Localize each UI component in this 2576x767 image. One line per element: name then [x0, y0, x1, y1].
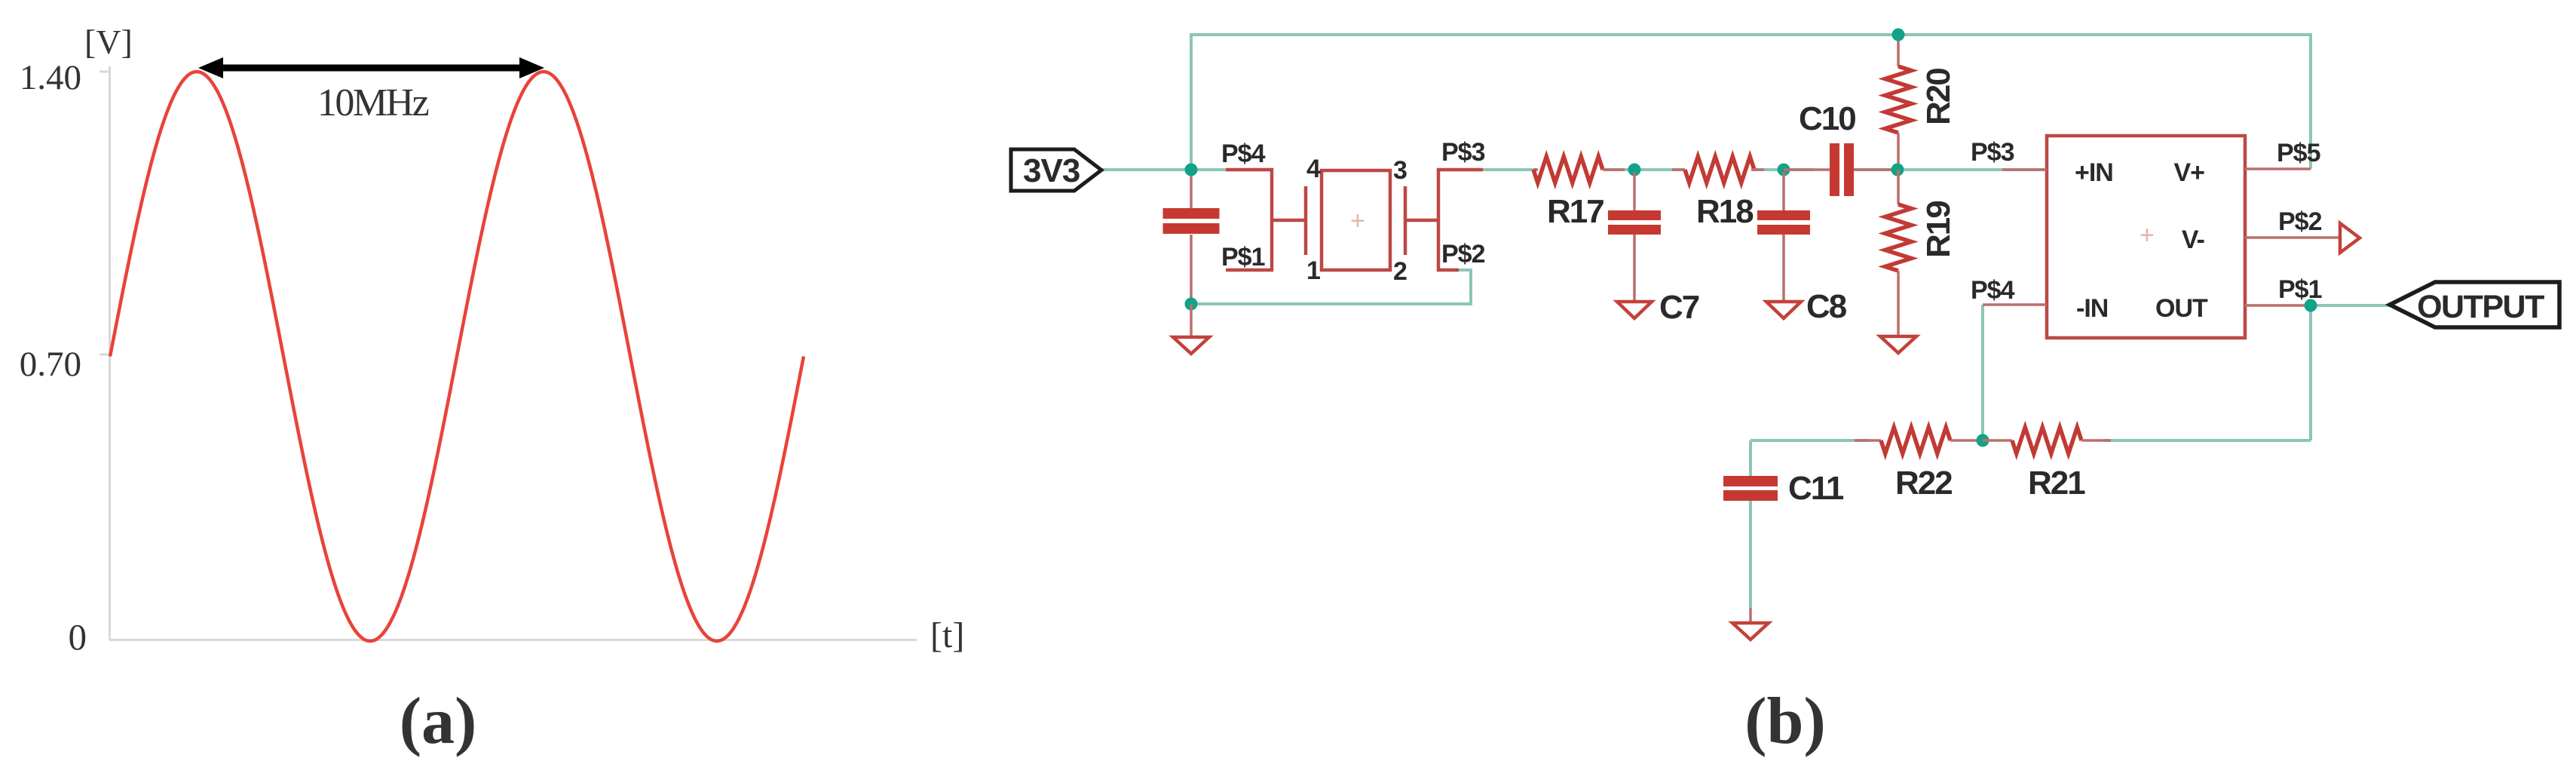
- op-amp V+ pin wire: [2245, 167, 2311, 170]
- pin label P$2 (crystal): [1441, 240, 1485, 268]
- wire: feedback bottom run: [1751, 439, 2311, 442]
- svg-text:P$2: P$2: [1441, 240, 1485, 268]
- svg-text:C10: C10: [1799, 100, 1855, 137]
- crystal pin number 2: [1393, 257, 1407, 286]
- capacitor C6 (3V3 decoupling): [1163, 171, 1220, 301]
- svg-text:V-: V-: [2182, 225, 2204, 254]
- resistor R17: [1533, 157, 1625, 183]
- svg-text:OUT: OUT: [2155, 294, 2208, 323]
- subfigure label (b): [1744, 685, 1826, 758]
- wire: 3V3 input net: [1099, 168, 1226, 171]
- svg-text:C11: C11: [1788, 470, 1844, 507]
- svg-text:C8: C8: [1806, 288, 1847, 325]
- svg-text:(b): (b): [1744, 685, 1826, 758]
- ground below C6: [1173, 304, 1209, 354]
- svg-text:P$3: P$3: [1971, 138, 2014, 167]
- crystal pin number 1: [1306, 256, 1321, 285]
- svg-text:P$4: P$4: [1971, 276, 2015, 305]
- period arrow: [198, 57, 544, 78]
- junction node rail/R20: [1892, 29, 1905, 41]
- svg-text:+IN: +IN: [2075, 158, 2113, 187]
- subfigure label (a): [400, 685, 477, 758]
- svg-text:3V3: 3V3: [1023, 152, 1080, 189]
- svg-text:R20: R20: [1920, 69, 1957, 125]
- svg-text:+: +: [2140, 221, 2155, 250]
- wire: -IN feedback vertical: [1981, 305, 1984, 440]
- op-amp pin name +IN: [2075, 158, 2113, 187]
- op-amp pin name V-: [2182, 225, 2204, 254]
- label C10: [1799, 100, 1855, 137]
- label R19 (rotated): [1920, 201, 1957, 258]
- svg-text:V+: V+: [2173, 158, 2204, 187]
- op-amp U1: [2047, 136, 2245, 338]
- ground below R19: [1880, 336, 1916, 353]
- wire: OUT node to feedback bottom: [2309, 305, 2312, 440]
- axis label [t]: [930, 615, 964, 655]
- junction node cap bottom: [1185, 298, 1198, 311]
- label R22: [1895, 465, 1952, 502]
- svg-text:P$1: P$1: [1221, 243, 1265, 272]
- svg-text:+: +: [1350, 207, 1365, 235]
- pin label P$1 (op-amp): [2278, 275, 2322, 304]
- svg-text:2: 2: [1393, 257, 1407, 286]
- svg-text:1: 1: [1306, 256, 1321, 285]
- capacitor C7: [1608, 172, 1661, 301]
- label C8: [1806, 288, 1847, 325]
- tick label 0.70: [20, 345, 81, 384]
- svg-text:3: 3: [1393, 156, 1407, 185]
- resistor R19: [1885, 170, 1912, 335]
- svg-text:R21: R21: [2028, 465, 2085, 502]
- svg-text:R22: R22: [1895, 465, 1952, 502]
- wire: C10 to +IN of op-amp: [1854, 168, 2048, 171]
- svg-text:4: 4: [1306, 155, 1321, 183]
- svg-text:R19: R19: [1920, 201, 1957, 258]
- svg-text:P$3: P$3: [1441, 138, 1485, 167]
- label R20 (rotated): [1920, 69, 1957, 125]
- ground below C7: [1617, 302, 1652, 318]
- pin label P$3 (crystal): [1441, 138, 1485, 167]
- wire: R17 to R18 node: [1603, 168, 1685, 171]
- svg-text:0.70: 0.70: [20, 345, 81, 384]
- axis label [V]: [84, 23, 133, 61]
- tick label 0: [69, 616, 87, 658]
- svg-text:OUTPUT: OUTPUT: [2417, 289, 2544, 325]
- junction node 3V3: [1185, 164, 1198, 176]
- x-axis: [109, 639, 917, 641]
- resistor R22: [1855, 428, 1982, 454]
- resistor R18: [1672, 157, 1764, 183]
- svg-text:P$2: P$2: [2278, 207, 2322, 236]
- wire: C11 top lead: [1749, 440, 1752, 477]
- supply flag 3V3: [1011, 149, 1101, 191]
- crystal pin number 3: [1393, 156, 1407, 185]
- pin label P$1 (crystal): [1221, 243, 1265, 272]
- junction node R17/R18: [1628, 164, 1641, 176]
- output flag OUTPUT: [2390, 282, 2559, 327]
- label 10MHz: [317, 81, 429, 124]
- svg-text:C7: C7: [1659, 289, 1699, 326]
- y-axis: [100, 66, 110, 640]
- ground below C8: [1766, 302, 1801, 318]
- ground below C11: [1732, 623, 1769, 640]
- svg-text:10MHz: 10MHz: [317, 81, 429, 124]
- label C7: [1659, 289, 1699, 326]
- op-amp pin name OUT: [2155, 294, 2208, 323]
- svg-text:P$5: P$5: [2277, 139, 2320, 167]
- op-amp -IN pin wire: [1983, 303, 2047, 306]
- label C11: [1788, 470, 1844, 507]
- label R18: [1696, 193, 1754, 230]
- svg-text:R17: R17: [1547, 193, 1603, 230]
- svg-text:0: 0: [69, 616, 87, 658]
- op-amp pin name V+: [2173, 158, 2204, 187]
- op-amp OUT pin wire: [2245, 304, 2311, 307]
- wire: C11 bottom lead: [1749, 501, 1752, 608]
- tick label 1.40: [20, 58, 81, 97]
- pin label P$4 (op-amp): [1971, 276, 2015, 305]
- wire: OUT to OUTPUT flag: [2311, 304, 2391, 307]
- op-amp pin name -IN: [2076, 294, 2108, 323]
- crystal Y1 (4-pad oscillator): [1226, 170, 1483, 270]
- wire: crystal P$2 return to ground node: [1191, 270, 1471, 304]
- label R17: [1547, 193, 1603, 230]
- wire: crystal P$3 to R17: [1483, 168, 1538, 171]
- svg-text:P$1: P$1: [2278, 275, 2322, 304]
- crystal pin number 4: [1306, 155, 1321, 183]
- junction node R20/R19/C10/+IN: [1891, 164, 1904, 176]
- resistor R21: [1983, 428, 2111, 454]
- capacitor C10 (series): [1784, 143, 1898, 196]
- junction node feedback: [1977, 434, 1989, 447]
- resistor R20: [1885, 35, 1912, 170]
- svg-text:(a): (a): [400, 685, 477, 758]
- sine waveform: [110, 72, 804, 641]
- wire: top supply rail: [1191, 35, 2311, 170]
- capacitor C11: [1723, 476, 1778, 621]
- op-amp +IN pin wire: [2002, 168, 2047, 171]
- svg-text:R18: R18: [1696, 193, 1754, 230]
- svg-text:-IN: -IN: [2076, 294, 2108, 323]
- capacitor C8: [1757, 172, 1810, 301]
- pin label P$2 (op-amp): [2278, 207, 2322, 236]
- junction node OUT: [2305, 299, 2317, 312]
- junction node R18/C10: [1778, 164, 1790, 176]
- svg-text:[t]: [t]: [930, 615, 964, 655]
- svg-text:[V]: [V]: [84, 23, 133, 61]
- pin label P$5 (op-amp): [2277, 139, 2320, 167]
- svg-text:P$4: P$4: [1221, 140, 1266, 168]
- pin label P$4 (crystal): [1221, 140, 1266, 168]
- label R21: [2028, 465, 2085, 502]
- svg-text:1.40: 1.40: [20, 58, 81, 97]
- wire: R18 to C10 node: [1751, 168, 1813, 171]
- op-amp V- pin wire with open arrow P$2: [2245, 223, 2360, 253]
- pin label P$3 (op-amp): [1971, 138, 2014, 167]
